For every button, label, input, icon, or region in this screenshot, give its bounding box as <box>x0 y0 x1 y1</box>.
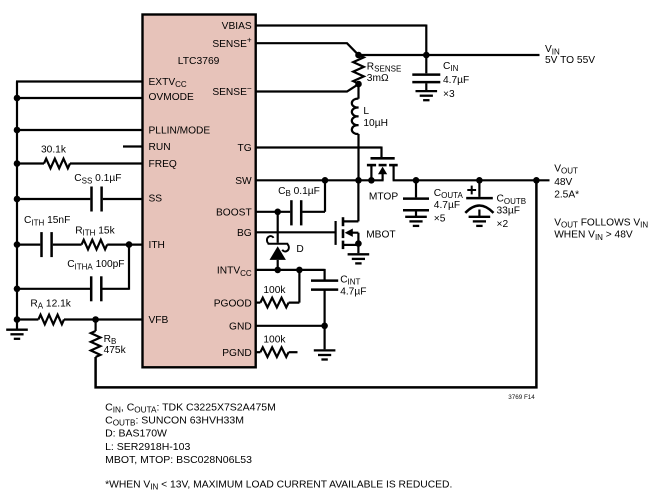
svg-text:PGND: PGND <box>222 348 251 359</box>
svg-text:SS: SS <box>149 194 163 205</box>
svg-text:2.5A*: 2.5A* <box>554 189 579 200</box>
svg-text:475k: 475k <box>104 345 127 356</box>
svg-text:D: D <box>296 244 303 255</box>
svg-text:×2: ×2 <box>497 219 509 230</box>
svg-text:RITH​ 15k: RITH​ 15k <box>75 225 115 237</box>
svg-text:4.7µF: 4.7µF <box>443 75 469 86</box>
svg-text:LTC3769: LTC3769 <box>178 56 220 67</box>
svg-text:4.7µF: 4.7µF <box>434 200 460 211</box>
svg-text:OVMODE: OVMODE <box>149 92 194 103</box>
svg-text:TG: TG <box>238 143 252 154</box>
svg-text:BOOST: BOOST <box>216 208 252 219</box>
svg-text:MBOT: MBOT <box>366 230 395 241</box>
svg-text:L: SER2918H-103: L: SER2918H-103 <box>105 441 190 453</box>
svg-text:FREQ: FREQ <box>149 159 177 170</box>
svg-text:SW: SW <box>235 176 252 187</box>
svg-text:5V TO 55V: 5V TO 55V <box>545 55 595 66</box>
svg-text:PLLIN/MODE: PLLIN/MODE <box>149 126 211 137</box>
svg-text:100k: 100k <box>263 285 286 296</box>
svg-text:MBOT, MTOP: BSC028N06L53: MBOT, MTOP: BSC028N06L53 <box>105 454 252 466</box>
svg-text:CB​ 0.1µF: CB​ 0.1µF <box>278 186 320 198</box>
svg-text:CIN​, COUTA​: TDK C3225X7S2A47: CIN​, COUTA​: TDK C3225X7S2A475M <box>105 401 276 414</box>
svg-text:33µF: 33µF <box>497 206 520 217</box>
svg-text:30.1k: 30.1k <box>41 145 67 156</box>
svg-text:10µH: 10µH <box>363 118 388 129</box>
svg-text:3769 F14: 3769 F14 <box>508 394 535 401</box>
svg-text:×3: ×3 <box>443 89 455 100</box>
svg-text:MTOP: MTOP <box>369 192 398 203</box>
svg-text:L: L <box>363 106 369 117</box>
svg-text:3mΩ: 3mΩ <box>367 73 389 84</box>
svg-text:CSS​ 0.1µF: CSS​ 0.1µF <box>74 173 121 185</box>
svg-text:×5: ×5 <box>434 214 446 225</box>
svg-text:RUN: RUN <box>149 142 171 153</box>
svg-text:4.7µF: 4.7µF <box>340 286 366 297</box>
svg-text:CITH​ 15nF: CITH​ 15nF <box>24 215 70 227</box>
svg-text:WHEN VIN​ > 48V: WHEN VIN​ > 48V <box>554 230 633 242</box>
svg-text:PGOOD: PGOOD <box>214 298 252 309</box>
svg-text:ITH: ITH <box>149 240 165 251</box>
svg-text:D: BAS170W: D: BAS170W <box>105 428 167 440</box>
svg-text:VFB: VFB <box>149 315 169 326</box>
svg-text:BG: BG <box>237 228 252 239</box>
svg-text:RA​ 12.1k: RA​ 12.1k <box>30 299 71 311</box>
svg-text:48V: 48V <box>554 177 572 188</box>
svg-text:VBIAS: VBIAS <box>222 21 252 32</box>
svg-text:100k: 100k <box>263 334 286 345</box>
svg-text:GND: GND <box>229 322 252 333</box>
